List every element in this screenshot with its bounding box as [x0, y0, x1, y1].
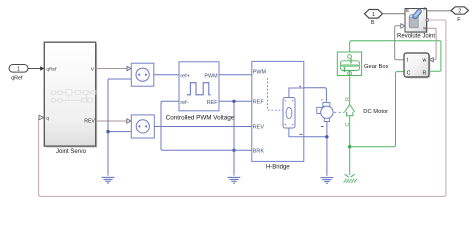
- svg-text:B: B: [371, 20, 375, 26]
- junction REF: [232, 100, 235, 103]
- block DC Motor: [317, 98, 345, 127]
- wire motor R to gearbox: [349, 76, 351, 105]
- controlled voltage source U1: [131, 63, 154, 86]
- wire B to Revolute Joint: [383, 13, 406, 15]
- svg-text:qRef: qRef: [11, 75, 23, 81]
- wire w sensing (joint to velocity source): [427, 28, 437, 60]
- input port 1 (qRef oval): [9, 65, 28, 82]
- svg-text:1: 1: [372, 12, 375, 18]
- svg-text:B: B: [406, 8, 409, 13]
- block Revolute Joint: [405, 6, 429, 33]
- svg-text:Controlled PWM Voltage: Controlled PWM Voltage: [166, 114, 235, 121]
- svg-text:+: +: [299, 84, 302, 90]
- svg-text:q: q: [46, 116, 49, 121]
- wire PWM: [219, 74, 252, 76]
- t input arrow at Revolute Joint: [401, 24, 405, 28]
- junction motor minus: [325, 135, 328, 138]
- wire minus net of sources to ground: [108, 79, 131, 176]
- q input arrow at Joint Servo: [39, 115, 44, 119]
- wire q sensing feedback (joint to servo q): [39, 20, 446, 196]
- DC motor R marker (green): [345, 105, 355, 116]
- wire qRef to Joint Servo: [28, 66, 44, 71]
- svg-text:F: F: [457, 17, 461, 23]
- joint icon: [409, 16, 418, 28]
- subsystem Joint Servo: [44, 42, 97, 155]
- svg-text:REV: REV: [253, 125, 265, 131]
- wire source2 out to REV of H-Bridge: [154, 126, 252, 128]
- svg-text:C: C: [407, 70, 411, 76]
- junction C net: [348, 145, 351, 148]
- svg-text:F: F: [423, 6, 426, 11]
- ground G3 (electrical reference): [321, 178, 334, 184]
- svg-text:Joint Servo: Joint Servo: [56, 149, 87, 155]
- block Controlled PWM Voltage: [166, 62, 235, 122]
- svg-text:DC Motor: DC Motor: [363, 109, 388, 115]
- mechanical rotational reference: [344, 174, 357, 183]
- svg-text:PWM: PWM: [204, 73, 218, 79]
- svg-text:PWM: PWM: [253, 70, 267, 76]
- svg-text:ref+: ref+: [180, 74, 189, 80]
- svg-text:BRK: BRK: [253, 149, 265, 155]
- wire gearbox O to sensor R (green loop): [350, 41, 441, 72]
- wire ref- to BRK: [161, 101, 252, 150]
- svg-text:REF: REF: [207, 100, 218, 106]
- svg-text:REF: REF: [253, 100, 265, 106]
- wire REV to voltage source 2: [96, 119, 131, 123]
- wire sensor C to C net: [350, 72, 404, 147]
- w input arrow at sensor block: [429, 58, 433, 62]
- junction minus net: [106, 130, 109, 133]
- wire source1 out to ref+: [154, 74, 179, 76]
- wire REF net: [219, 101, 252, 175]
- junction BRK/ground: [232, 149, 235, 152]
- block Gear Box: [337, 52, 361, 76]
- wire H-Bridge + to motor +: [304, 88, 327, 102]
- svg-text:Revolute Joint: Revolute Joint: [397, 34, 435, 40]
- controlled voltage source U2: [131, 115, 154, 138]
- svg-text:R: R: [422, 70, 426, 76]
- wire F to hexagon 2: [427, 10, 452, 12]
- wire motor C to mechanical reference (with sensor C tee): [349, 116, 351, 175]
- wire V to voltage source 1: [96, 66, 131, 70]
- svg-text:Gear Box: Gear Box: [364, 64, 389, 70]
- svg-text:+: +: [321, 98, 324, 103]
- block motion interface sensor (t/w/C/R): [404, 53, 430, 78]
- hexagon port 2 (F): [451, 7, 469, 23]
- wire H-Bridge - / motor - / ground: [304, 121, 327, 176]
- hexagon port 1 (B): [365, 10, 383, 27]
- svg-text:qRef: qRef: [46, 66, 57, 72]
- svg-text:w: w: [422, 57, 426, 63]
- svg-text:REV: REV: [84, 118, 95, 124]
- block H-Bridge: [252, 61, 304, 170]
- wire t (sensor torque to joint actuation): [395, 26, 404, 60]
- svg-text:ref-: ref-: [180, 100, 188, 106]
- svg-text:1: 1: [17, 66, 20, 72]
- ground G1 (electrical reference): [102, 177, 115, 183]
- svg-text:2: 2: [458, 9, 461, 15]
- svg-text:H-Bridge: H-Bridge: [266, 165, 290, 171]
- H-Bridge inner icon: [283, 98, 295, 129]
- ground G2 (electrical reference): [228, 177, 241, 183]
